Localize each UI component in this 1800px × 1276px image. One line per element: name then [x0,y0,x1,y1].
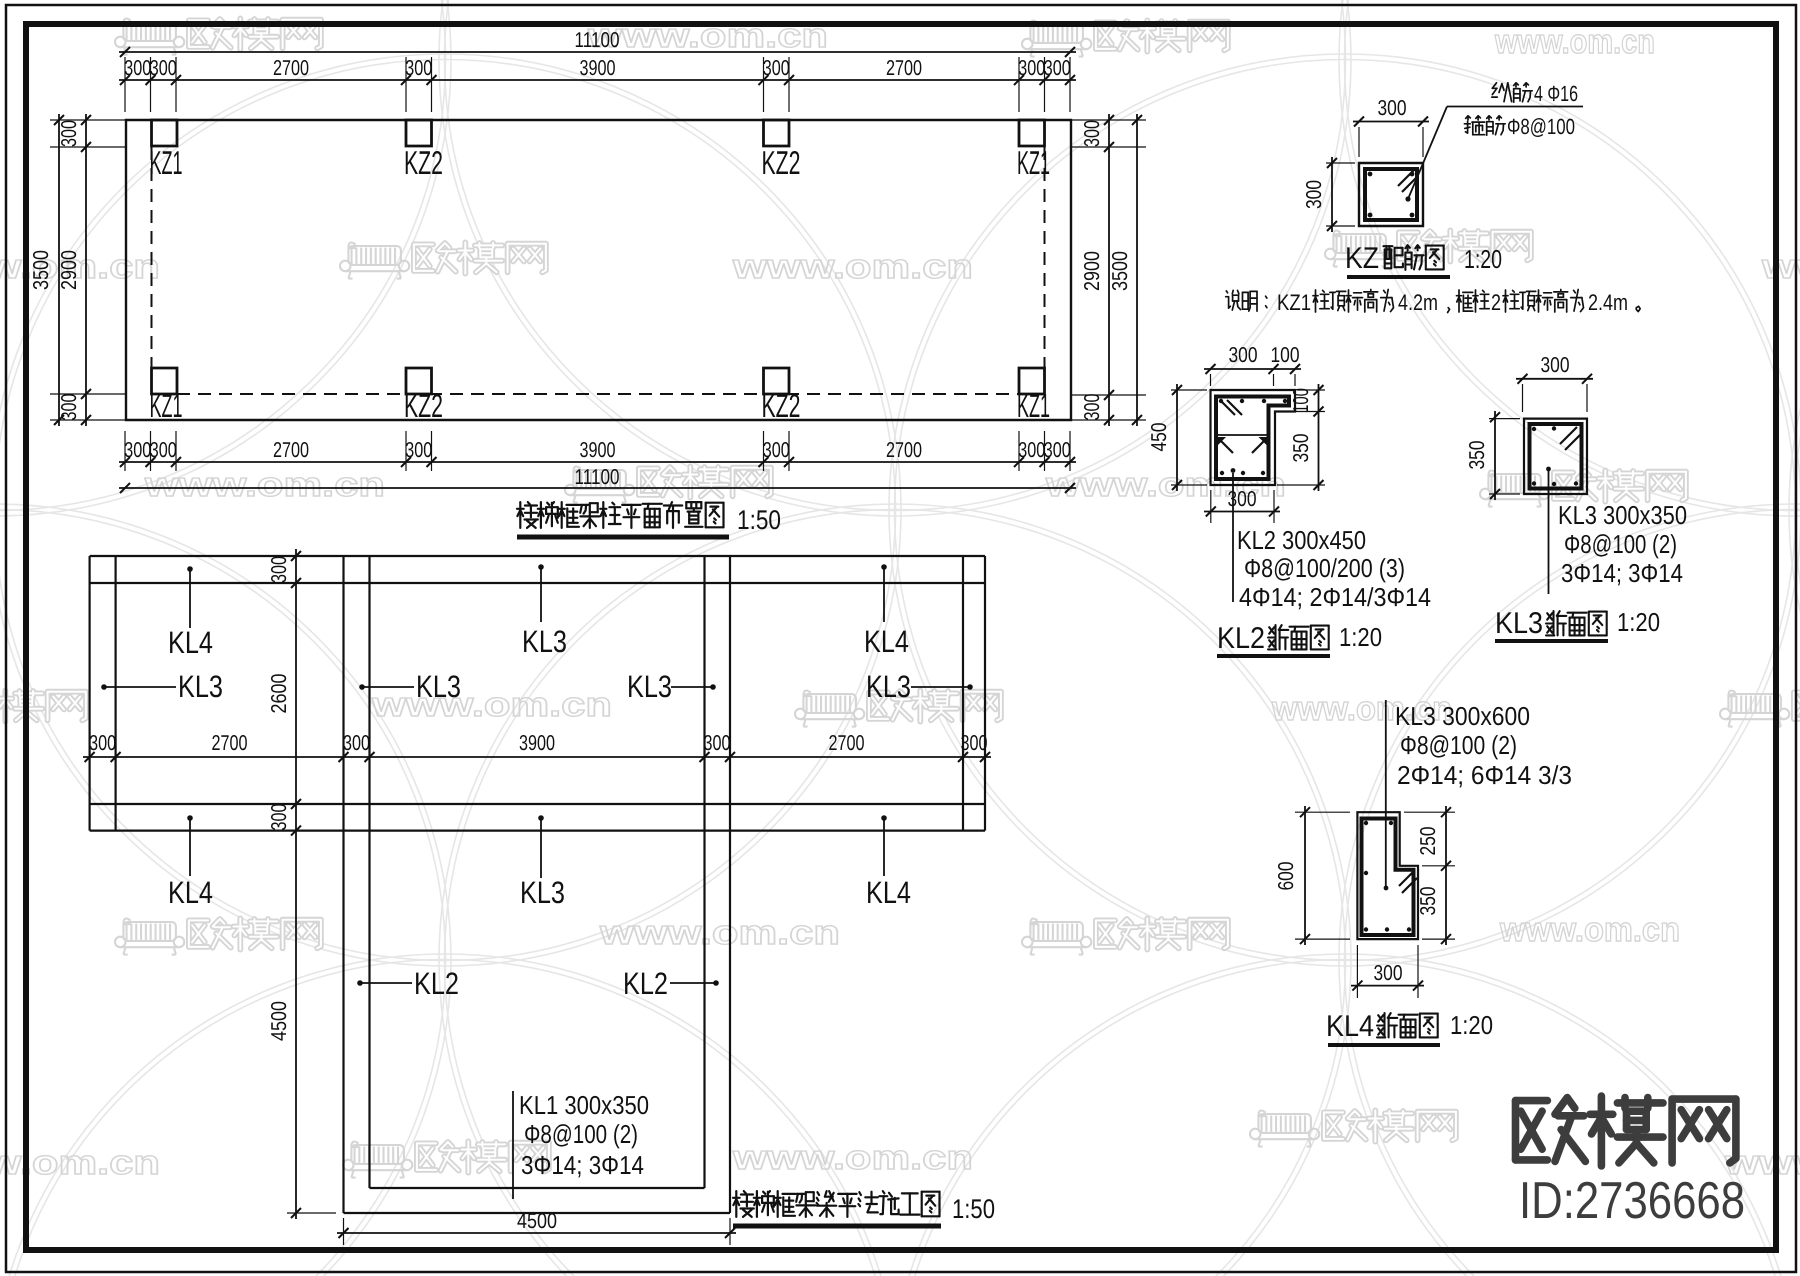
plan2 bottom dim 4500 [343,1218,345,1245]
label KL3 mid-center-left with leader [359,684,365,690]
svg-text:300: 300 [763,438,790,462]
svg-text:KL3: KL3 [866,669,911,704]
KL2 stirrup [1216,397,1289,480]
KZ stirrup [1365,169,1417,220]
svg-text:300: 300 [1228,487,1257,511]
KZ top dim 300 [1353,121,1429,123]
svg-text:2700: 2700 [212,731,248,755]
KL4 hatch [1399,871,1414,886]
column KZ1 top plan1 [1019,120,1045,146]
label KL3 top-center with leader [538,564,544,570]
svg-text:KL4: KL4 [168,875,213,910]
svg-text:KZ: KZ [1345,242,1379,275]
watermark logo C1 [565,466,771,502]
svg-text:300: 300 [267,556,291,583]
svg-text:300: 300 [89,731,116,755]
KL3 leader [1548,471,1550,594]
column KZ1 top plan1 [152,120,178,146]
svg-text:2900: 2900 [1080,251,1104,291]
KL1 text block with leader [512,1091,514,1199]
KL4 right dims 250 350 [1445,806,1447,945]
svg-text:350: 350 [1465,440,1489,469]
svg-text:2: 2 [1491,290,1501,315]
svg-text:250: 250 [1416,826,1440,855]
plan1 left dim chain 300/2900/300 [85,114,87,426]
plan1 left overall dim 3500 [58,114,60,426]
plan1 outline wall rectangle [126,120,1071,420]
watermark logo C2 [1480,470,1686,506]
plan2 shaft walls [342,556,344,1213]
svg-text:350: 350 [1289,433,1313,462]
KL4 left dim 600 [1304,806,1306,945]
svg-text:2700: 2700 [886,438,922,462]
svg-text:300: 300 [267,803,291,830]
KZ hatch [1398,170,1414,186]
svg-text:3500: 3500 [1108,251,1132,291]
label KL4 bottom-left with leader [187,815,193,821]
plan1 bottom overall dim 11100 [119,487,1076,489]
KL2 mid corner marks [1216,437,1226,447]
svg-text:Φ8@100 (2): Φ8@100 (2) [1400,730,1517,760]
svg-text:KZ2: KZ2 [404,144,443,181]
watermark logo E2 [1022,918,1228,954]
KL3 top dim 300 [1516,378,1593,380]
svg-text:KZ1: KZ1 [1277,290,1311,315]
KL2 top dims 300 100 [1204,368,1301,370]
watermark logo D3 [1720,690,1800,726]
svg-text:KL4: KL4 [866,875,911,910]
svg-text:350: 350 [1416,886,1440,915]
KL4 rebar dots [1364,821,1368,825]
KZ leader 纵筋/箍筋 [1447,106,1583,108]
svg-text:3900: 3900 [519,731,555,755]
svg-text:KZ1: KZ1 [150,144,183,181]
svg-text:www.om.cn: www.om.cn [1499,911,1680,949]
KL3 section square [1524,419,1587,494]
column KZ2 bottom plan1 [764,368,790,394]
KL2 bottom rebar dots [1220,471,1224,475]
KL4 section outline [1357,812,1418,939]
svg-text:300: 300 [150,56,177,80]
svg-text:300: 300 [343,731,370,755]
svg-text:2700: 2700 [273,438,309,462]
svg-text:300: 300 [57,393,81,420]
svg-text:1:50: 1:50 [737,505,781,535]
KL3 stirrup [1530,424,1582,489]
svg-text:4Φ14; 2Φ14/3Φ14: 4Φ14; 2Φ14/3Φ14 [1239,582,1431,612]
svg-text:300: 300 [1374,961,1403,985]
svg-text:100: 100 [1271,343,1300,367]
svg-text:KL2 300x450: KL2 300x450 [1237,525,1366,555]
title plan1 [519,502,521,528]
watermark logo A2 [1022,20,1228,56]
svg-text:KL3: KL3 [416,669,461,704]
svg-text:300: 300 [1018,56,1045,80]
svg-text:1:20: 1:20 [1339,622,1382,652]
svg-text:KZ1: KZ1 [1017,144,1050,181]
KL3 left dim 350 [1494,411,1496,500]
svg-text:KL3: KL3 [627,669,672,704]
KL2 top rebar dots [1219,399,1223,403]
svg-text:300: 300 [1541,353,1570,377]
svg-text:KL2: KL2 [1217,622,1265,655]
svg-text:www.om.cn: www.om.cn [144,466,385,504]
KL2 section outline [1211,390,1296,485]
svg-text:300: 300 [57,120,81,147]
svg-text:Φ8@100: Φ8@100 [1507,114,1575,139]
watermark logo A1 [115,18,321,54]
KL2 left dim 450 [1176,384,1178,491]
svg-text:4500: 4500 [267,1001,291,1041]
svg-text:2700: 2700 [886,56,922,80]
KL2 right dims 100 350 [1318,384,1320,491]
svg-text:4500: 4500 [517,1209,557,1233]
KL2 bottom dim 300 [1210,490,1212,523]
svg-text:11100: 11100 [575,465,620,489]
svg-text:2Φ14; 6Φ14 3/3: 2Φ14; 6Φ14 3/3 [1397,760,1572,790]
svg-text:3900: 3900 [580,56,616,80]
svg-text:2.4m: 2.4m [1588,290,1628,315]
svg-text:Φ8@100/200 (3): Φ8@100/200 (3) [1244,553,1405,583]
svg-text:4.2m: 4.2m [1398,290,1438,315]
svg-text:11100: 11100 [575,28,620,52]
KL2 leader [1232,473,1234,602]
svg-text:300: 300 [1044,438,1071,462]
svg-text:1:50: 1:50 [952,1194,995,1224]
column KZ1 bottom plan1 [152,368,178,394]
svg-text:3Φ14; 3Φ14: 3Φ14; 3Φ14 [1561,558,1683,588]
plan2 horizontal dim chain [83,756,991,758]
plan1 right dim chain 300/2900/300 [1108,114,1110,426]
column KZ2 top plan1 [406,120,432,146]
svg-text:KL3: KL3 [522,624,567,659]
svg-text:www.om.cn: www.om.cn [732,1139,973,1177]
watermark logo F2 [1250,1110,1456,1146]
label KL2 left with leader [357,980,363,986]
svg-text:KL3: KL3 [1495,607,1543,640]
watermark logo D2 [795,690,1001,726]
svg-text:300: 300 [124,438,151,462]
plan2 band outline [90,555,985,557]
svg-text:2700: 2700 [273,56,309,80]
watermark logo F1 [343,1141,549,1177]
column KZ2 top plan1 [764,120,790,146]
svg-text:2700: 2700 [829,731,865,755]
svg-text:KZ1: KZ1 [1017,387,1050,424]
svg-text:Φ8@100 (2): Φ8@100 (2) [1564,529,1677,559]
svg-text:KL3: KL3 [520,875,565,910]
KL4 stirrup [1362,819,1414,936]
svg-text:KZ2: KZ2 [762,144,801,181]
svg-text:300: 300 [1229,343,1258,367]
svg-text:300: 300 [704,731,731,755]
KZ left dim 300 [1331,157,1333,232]
label KL4 top-left with leader [187,566,193,572]
label KL3 mid-left with leader [101,684,107,690]
svg-text:www.om.cn: www.om.cn [371,686,612,724]
svg-text:4 Φ16: 4 Φ16 [1534,81,1578,106]
plan1 right overall dim 3500 [1136,114,1138,426]
watermark logo E1 [115,918,321,954]
label KL4 top-right with leader [881,564,887,570]
svg-text:1:20: 1:20 [1450,1010,1493,1040]
KL2 hatches [1220,400,1235,415]
svg-text:KL3 300x350: KL3 300x350 [1558,500,1687,530]
svg-text:Φ8@100 (2): Φ8@100 (2) [524,1119,638,1149]
KL4 bottom dim 300 [1356,945,1358,998]
svg-text:KZ2: KZ2 [762,387,801,424]
svg-text:300: 300 [961,731,988,755]
svg-text:KL1 300x350: KL1 300x350 [519,1090,649,1120]
svg-text:3900: 3900 [580,438,616,462]
KL4 leader [1385,700,1387,886]
label KL3 bottom-center with leader [538,815,544,821]
KZ section square [1359,163,1423,226]
svg-text:2600: 2600 [267,673,291,713]
big site logo 欧模网 [1516,1097,1548,1105]
svg-text:3Φ14; 3Φ14: 3Φ14; 3Φ14 [521,1150,644,1180]
watermark logo B1 [340,242,546,278]
svg-text:KL3 300x600: KL3 300x600 [1395,701,1530,731]
svg-text:1:20: 1:20 [1617,607,1660,637]
svg-text:300: 300 [1018,438,1045,462]
svg-text:1:20: 1:20 [1464,244,1502,274]
svg-text:KL3: KL3 [178,669,223,704]
svg-text:KL4: KL4 [1326,1010,1374,1043]
svg-text:www.om.cn: www.om.cn [1761,248,1800,286]
svg-text:KL4: KL4 [168,625,213,660]
svg-text:300: 300 [405,438,432,462]
watermark logo B2 [1325,230,1531,266]
column KZ2 bottom plan1 [406,368,432,394]
watermark logo D1 [0,690,86,726]
svg-text:KL2: KL2 [623,966,668,1001]
KL2 mid line [1216,434,1269,436]
svg-text:KL4: KL4 [864,624,909,659]
svg-text:300: 300 [1378,96,1407,120]
KL3 rebar dots [1532,427,1536,431]
svg-text:300: 300 [150,438,177,462]
svg-text:2900: 2900 [57,250,81,290]
svg-text:300: 300 [405,56,432,80]
svg-text:KL2: KL2 [414,966,459,1001]
svg-text:300: 300 [124,56,151,80]
svg-text:KZ2: KZ2 [404,387,443,424]
svg-text:300: 300 [763,56,790,80]
svg-text:300: 300 [1080,120,1104,147]
svg-text:300: 300 [1044,56,1071,80]
KL3 hatch [1560,427,1577,444]
plan1 bottom dim chain [119,461,1076,463]
svg-text:www.om.cn: www.om.cn [599,914,840,952]
title plan2 [735,1191,737,1217]
说明 note line [1226,291,1227,293]
svg-text:450: 450 [1147,422,1171,451]
svg-text:300: 300 [1080,393,1104,420]
column KZ1 bottom plan1 [1019,368,1045,394]
svg-text:www.om.cn: www.om.cn [1494,23,1655,61]
KZ corner rebar dots [1368,172,1373,177]
plan1 top dim chain 300/300/2700/300/3900/300/2700/300/300 [119,79,1076,81]
plan2 vertical dim chain 300/2600/300/4500 [295,549,297,1219]
svg-text:www.om.cn: www.om.cn [732,248,973,286]
label KL4 bottom-right with leader [881,815,887,821]
svg-text:3500: 3500 [29,250,53,290]
svg-text:ID:2736668: ID:2736668 [1519,1172,1745,1230]
plan1 top overall dim 11100 [119,51,1076,53]
svg-text:100: 100 [1289,388,1313,413]
svg-text:600: 600 [1274,861,1298,890]
svg-text:300: 300 [1302,180,1326,209]
svg-text:KZ1: KZ1 [150,387,183,424]
plan1 dashed inner beam lines [151,147,153,394]
